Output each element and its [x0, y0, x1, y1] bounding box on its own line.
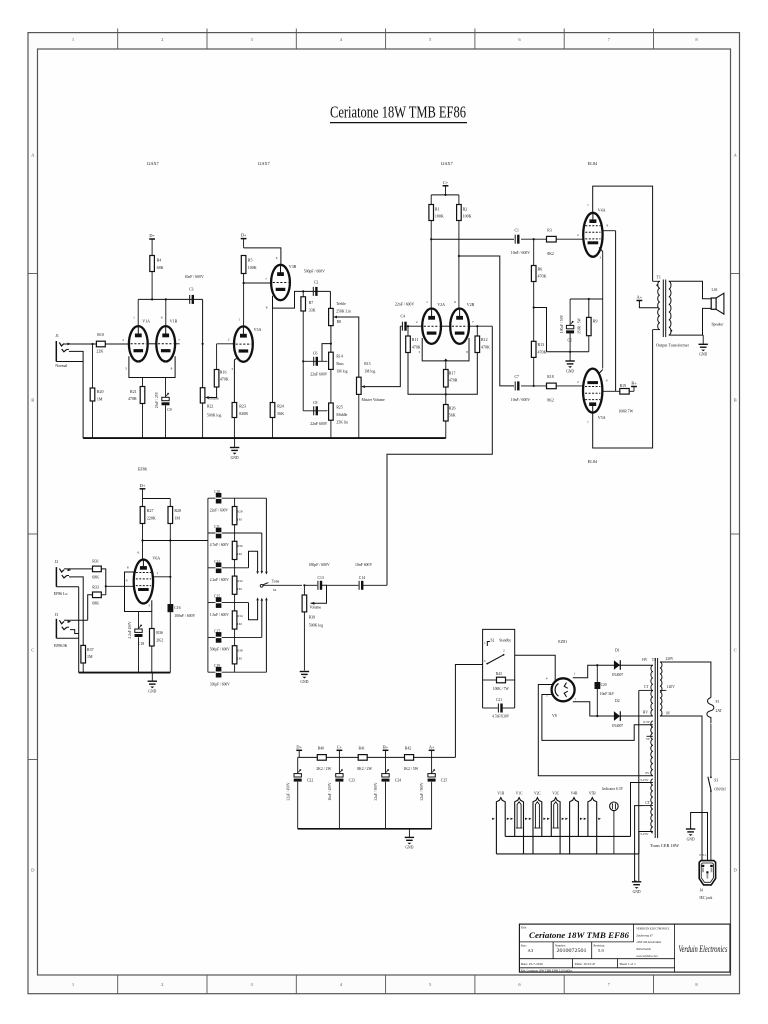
svg-text:C6: C6: [313, 351, 318, 355]
T2 heater winding: [651, 779, 653, 833]
svg-text:J1: J1: [55, 334, 59, 338]
svg-text:V1B: V1B: [497, 791, 504, 795]
wire J2 ring to R37: [69, 577, 83, 646]
capacitor C25 electrolytic: [431, 757, 433, 773]
svg-text:0V: 0V: [666, 711, 671, 715]
svg-text:C8: C8: [313, 401, 318, 405]
svg-text:C22: C22: [307, 779, 313, 783]
capacitor C5 electrolytic: [569, 299, 571, 325]
svg-text:B: B: [734, 398, 737, 403]
svg-text:A3: A3: [528, 948, 534, 953]
svg-text:470R: 470R: [128, 396, 137, 401]
svg-text:J4: J4: [700, 889, 703, 893]
svg-text:22nF 600V: 22nF 600V: [310, 372, 327, 376]
svg-text:1: 1: [238, 318, 240, 322]
resistor R17: [444, 370, 449, 388]
resistor R32: [234, 568, 236, 576]
wire IEC earth to ground: [691, 813, 708, 861]
svg-text:R1: R1: [435, 206, 440, 211]
ground GND filter caps: [408, 829, 410, 838]
svg-text:D+: D+: [149, 233, 155, 238]
wire V3B anode rail: [244, 248, 281, 265]
wire standby pin2 to rectifier: [515, 655, 556, 681]
svg-text:150R / 5W: 150R / 5W: [578, 318, 582, 334]
capacitor C22 electrolytic: [297, 757, 299, 773]
svg-text:R39: R39: [309, 616, 315, 620]
resistor R26: [445, 394, 447, 404]
svg-text:Middle: Middle: [336, 413, 347, 417]
wire 3.15V top to heater bus: [631, 783, 653, 837]
svg-text:R24: R24: [277, 404, 284, 409]
wire grid link V1A-V1B: [148, 343, 157, 345]
svg-text:C11: C11: [214, 525, 220, 529]
wire V1A anode: [137, 299, 139, 326]
svg-text:22nF 600V: 22nF 600V: [310, 422, 327, 426]
ground GND mains earth: [686, 828, 695, 830]
ground GND preamp bus: [234, 438, 236, 447]
svg-text:D1: D1: [615, 649, 620, 653]
svg-text:GND: GND: [148, 690, 156, 694]
svg-text:22K: 22K: [96, 349, 103, 354]
svg-text:C16: C16: [174, 606, 180, 610]
resistor R19: [616, 390, 620, 392]
wire V4A screen pin 9: [602, 230, 615, 232]
resistor R42: [405, 755, 414, 761]
svg-text:IEC jack: IEC jack: [699, 896, 712, 900]
resistor R43 snubber: [483, 679, 497, 681]
phase dot T1 secondary: [670, 330, 672, 332]
svg-text:100K: 100K: [435, 214, 444, 219]
svg-text:C12: C12: [214, 560, 220, 564]
svg-text:EF86 Hi: EF86 Hi: [54, 644, 67, 648]
svg-text:R43: R43: [496, 672, 502, 676]
svg-text:R29: R29: [237, 509, 243, 513]
capacitor C19: [216, 667, 222, 678]
svg-text:VERDUIN ELECTRONICS: VERDUIN ELECTRONICS: [636, 927, 670, 931]
wire HV CT to ground: [638, 690, 640, 881]
svg-text:C9: C9: [167, 408, 172, 412]
svg-text:Date: 25-7-2010: Date: 25-7-2010: [521, 962, 544, 966]
svg-text:GND: GND: [231, 456, 239, 460]
svg-text:C20: C20: [601, 683, 607, 687]
rotary switch S4 rotor: [260, 584, 263, 587]
svg-text:EF86: EF86: [138, 467, 147, 472]
resistor R36: [151, 612, 153, 629]
wire heater bus lower: [496, 853, 639, 855]
svg-text:V5A: V5A: [598, 415, 606, 420]
svg-text:1M: 1M: [237, 657, 242, 661]
svg-text:22nF / 600V: 22nF / 600V: [395, 303, 414, 307]
capacitor C12: [216, 563, 222, 574]
resistor R3: [547, 236, 557, 242]
svg-text:56K: 56K: [449, 413, 456, 418]
svg-text:100K: 100K: [463, 214, 472, 219]
column tick marks: [117, 29, 119, 50]
svg-text:4.7nF / 600V: 4.7nF / 600V: [210, 543, 229, 547]
svg-text:A+: A+: [429, 744, 435, 749]
svg-text:V3C: V3C: [552, 791, 559, 795]
resistor R10: [96, 341, 105, 347]
svg-text:R15: R15: [364, 362, 370, 366]
svg-text:B+: B+: [383, 744, 389, 749]
svg-text:7: 7: [575, 698, 577, 702]
capacitor C23 electrolytic: [338, 757, 340, 773]
svg-text:C: C: [734, 648, 737, 653]
svg-text:V2A: V2A: [437, 302, 445, 307]
svg-text:R34: R34: [237, 614, 243, 618]
svg-text:IN4007: IN4007: [612, 724, 623, 728]
svg-text:Normal: Normal: [55, 364, 67, 368]
svg-text:S3: S3: [714, 778, 718, 782]
wire heater bus upper: [505, 835, 630, 837]
svg-text:Ceriatone 18W TMB EF86: Ceriatone 18W TMB EF86: [330, 103, 466, 122]
svg-text:1: 1: [157, 571, 159, 575]
resistor R24: [272, 308, 274, 402]
wire J3 tip to R33: [64, 619, 88, 621]
label 230V: [660, 661, 673, 663]
svg-text:V4A: V4A: [598, 208, 606, 213]
wire tone bank left bus: [207, 498, 209, 672]
svg-text:R6: R6: [538, 266, 543, 271]
volume pot R22: [200, 388, 205, 403]
svg-text:Volume: Volume: [309, 606, 321, 610]
svg-text:470K: 470K: [481, 344, 490, 349]
svg-text:32uF / 500V: 32uF / 500V: [420, 782, 424, 801]
svg-text:1M: 1M: [174, 516, 180, 521]
wire V1B grid stub: [175, 343, 180, 345]
resistor R11: [407, 326, 409, 336]
svg-text:5V: 5V: [646, 737, 651, 741]
svg-text:C19: C19: [214, 664, 220, 668]
pentode V6A EF86: [134, 560, 153, 604]
svg-text:2K2 / 2W: 2K2 / 2W: [316, 767, 331, 771]
wire tone row 4: [208, 602, 249, 604]
svg-text:470K: 470K: [538, 274, 547, 279]
svg-text:10nF / 600V: 10nF / 600V: [511, 251, 530, 255]
svg-text:Zuiderweg 67: Zuiderweg 67: [636, 933, 653, 937]
wire V8 heater pin 5 to 6.3V: [542, 695, 653, 741]
svg-text:V3B: V3B: [289, 264, 297, 269]
svg-text:File: Ceriatone 18W TMB EF86: File: Ceriatone 18W TMB EF86 5.0.SchDoc: [521, 968, 573, 972]
svg-text:6: 6: [276, 256, 278, 260]
resistor R20: [92, 344, 94, 388]
svg-text:180pF / 600V: 180pF / 600V: [309, 563, 330, 567]
rectifier tube V8: [552, 678, 575, 701]
svg-text:0V: 0V: [645, 771, 650, 775]
resistor R9: [588, 299, 590, 317]
wire rotor to volume: [263, 584, 302, 586]
svg-text:500K log: 500K log: [309, 623, 323, 627]
svg-text:25uF / 25V: 25uF / 25V: [155, 391, 159, 408]
capacitor C16: [168, 604, 174, 612]
wire V2A anode to C1: [430, 221, 432, 309]
svg-text:R36: R36: [156, 630, 163, 635]
svg-text:1M: 1M: [87, 654, 93, 659]
wire bass wiper jog: [322, 344, 331, 362]
svg-text:C15: C15: [214, 595, 220, 599]
wire R4 to anode rail: [151, 272, 153, 300]
svg-text:Sheet 1 of 1: Sheet 1 of 1: [620, 962, 637, 966]
wire V2 cathode box: [422, 338, 469, 361]
resistor R16: [214, 370, 219, 388]
rotary switch S4 contact 1: [265, 498, 267, 571]
capacitor C9 electrolytic: [162, 397, 169, 400]
svg-text:56K: 56K: [277, 411, 284, 416]
wire treble wiper to master volume: [333, 316, 337, 319]
svg-text:8: 8: [171, 366, 173, 370]
wire J1 ring to ground: [69, 351, 83, 438]
svg-text:100R 7W: 100R 7W: [619, 409, 634, 413]
svg-text:Output Transformer: Output Transformer: [656, 344, 690, 348]
resistor R18: [547, 383, 557, 389]
svg-text:100uF / 50V: 100uF / 50V: [560, 315, 564, 334]
svg-text:12AX7: 12AX7: [146, 161, 158, 166]
wire standby to A+ rail: [455, 665, 482, 758]
svg-text:1M: 1M: [237, 622, 242, 626]
svg-text:C17: C17: [214, 629, 220, 633]
wire heater CT to ground: [635, 806, 643, 881]
svg-text:470K: 470K: [538, 350, 547, 355]
svg-text:6: 6: [454, 300, 456, 304]
wire C8 to middle wiper: [303, 410, 327, 412]
svg-text:IN4007: IN4007: [612, 673, 623, 677]
label 120V: [660, 689, 666, 691]
svg-text:HV: HV: [643, 710, 649, 714]
svg-text:1M: 1M: [237, 552, 242, 556]
rotary switch S4 contact 3: [249, 551, 258, 571]
resistor R37: [81, 645, 86, 663]
wire J2 tip to R31: [64, 568, 93, 570]
svg-text:6: 6: [161, 316, 163, 320]
svg-text:Verduin Electronics: Verduin Electronics: [679, 944, 728, 954]
svg-text:HV: HV: [642, 658, 648, 662]
svg-text:C10: C10: [214, 490, 220, 494]
transformer T1 secondary: [669, 281, 671, 335]
svg-text:32uF / 500V: 32uF / 500V: [374, 782, 378, 801]
wire EF86 channel to V2B grid: [387, 326, 492, 585]
svg-text:68K: 68K: [92, 575, 99, 580]
svg-text:R4: R4: [157, 258, 162, 263]
ground GND EL84 cathode: [569, 352, 571, 361]
resistor R1: [429, 205, 434, 221]
svg-text:8K2 / 2W: 8K2 / 2W: [357, 767, 372, 771]
svg-text:C13: C13: [318, 576, 324, 580]
svg-text:3.15V: 3.15V: [640, 832, 649, 836]
wire EF86 anode rail: [143, 498, 171, 500]
svg-text:Bass: Bass: [336, 362, 344, 366]
svg-text:GND: GND: [699, 353, 707, 357]
resistor R4: [150, 256, 155, 272]
svg-text:Title: Title: [521, 925, 527, 929]
svg-text:R32: R32: [237, 579, 243, 583]
svg-text:4: 4: [546, 677, 548, 681]
svg-text:D+: D+: [140, 483, 146, 488]
wire T1 secondary bottom: [669, 334, 703, 336]
capacitor C15: [216, 597, 222, 608]
fuse F1: [707, 698, 714, 724]
svg-text:3: 3: [125, 366, 127, 370]
svg-text:R21: R21: [130, 389, 137, 394]
svg-text:120V: 120V: [667, 685, 675, 689]
wire V2B anode to C7: [458, 221, 460, 309]
svg-text:D+: D+: [241, 233, 247, 238]
svg-text:R13: R13: [538, 342, 545, 347]
svg-text:V1A: V1A: [142, 319, 150, 324]
resistor R28: [168, 507, 173, 524]
ground GND EF86: [151, 673, 153, 682]
svg-text:D2: D2: [615, 699, 620, 703]
svg-text:R16: R16: [220, 369, 227, 374]
svg-text:2K2: 2K2: [156, 638, 163, 643]
wire grid link V2A-V2B: [441, 325, 451, 327]
svg-text:16uF / 450V: 16uF / 450V: [328, 782, 332, 801]
wire V1 cathode box: [129, 356, 175, 377]
svg-text:V8: V8: [552, 714, 557, 718]
svg-text:4.7nF/630V: 4.7nF/630V: [492, 715, 510, 719]
svg-text:Volume: Volume: [207, 396, 219, 400]
svg-text:470R: 470R: [449, 378, 458, 383]
svg-text:Revision:: Revision:: [594, 943, 606, 947]
wire V8 plate 7 to D2 rail: [573, 702, 653, 716]
svg-text:100K: 100K: [248, 265, 257, 270]
resistor R30: [234, 533, 236, 541]
svg-text:GND: GND: [566, 369, 574, 373]
svg-text:R7: R7: [309, 300, 314, 305]
svg-text:C+: C+: [443, 180, 449, 185]
wire treble bottom to bass: [330, 326, 332, 353]
middle pot R25: [329, 403, 334, 420]
svg-text:2: 2: [503, 649, 505, 653]
triode V1A: [129, 326, 148, 361]
svg-text:2: 2: [577, 380, 579, 384]
svg-text:8K2: 8K2: [547, 252, 554, 256]
svg-text:6: 6: [137, 551, 139, 555]
svg-text:V3A: V3A: [254, 327, 262, 332]
svg-text:2010072501: 2010072501: [557, 948, 587, 954]
svg-text:3: 3: [484, 659, 486, 663]
wire V5A cathode: [599, 370, 603, 374]
wire V6A grid: [106, 585, 134, 587]
svg-text:C+: C+: [337, 744, 343, 749]
svg-text:CT: CT: [644, 685, 649, 689]
svg-text:R26: R26: [449, 405, 456, 410]
svg-text:2.2uF 450V: 2.2uF 450V: [128, 621, 132, 639]
svg-text:V5B: V5B: [589, 791, 596, 795]
wire V8 heater pin 4 to 0V: [538, 685, 653, 776]
svg-text:1M log: 1M log: [364, 370, 375, 374]
svg-text:T1: T1: [656, 275, 660, 280]
svg-text:1M log: 1M log: [336, 370, 347, 374]
capacitor C10: [216, 493, 222, 504]
wire V3A grid: [217, 343, 234, 345]
svg-text:250K Lin: 250K Lin: [336, 310, 351, 314]
wire tone row 3: [208, 567, 249, 569]
svg-text:12AX7: 12AX7: [440, 161, 452, 166]
svg-text:32uF / 450V: 32uF / 450V: [286, 782, 290, 801]
svg-text:A+: A+: [637, 295, 643, 300]
T2 HV secondary winding: [651, 665, 653, 716]
capacitor C24 electrolytic: [385, 757, 387, 773]
svg-text:V2C: V2C: [534, 791, 541, 795]
wire V2B grid stub: [469, 325, 492, 327]
svg-text:R19: R19: [620, 384, 626, 388]
triode V1B: [156, 326, 175, 361]
resistor R6: [533, 239, 535, 265]
svg-text:8: 8: [127, 565, 129, 569]
svg-text:R37: R37: [87, 647, 94, 652]
svg-text:R22: R22: [207, 404, 213, 408]
wire bass to middle: [330, 369, 332, 403]
capacitor C11: [216, 528, 222, 539]
svg-text:C4: C4: [401, 314, 406, 318]
switch S2 standby box: [483, 629, 515, 708]
svg-text:100K / 7W: 100K / 7W: [493, 687, 510, 691]
svg-text:Time: 10:15:47: Time: 10:15:47: [575, 962, 596, 966]
resistor R33: [93, 592, 102, 598]
bass pot R14: [329, 352, 334, 369]
svg-text:V4B: V4B: [571, 791, 578, 795]
svg-text:1.5nF / 600V: 1.5nF / 600V: [210, 613, 229, 617]
svg-text:C2: C2: [314, 280, 319, 284]
svg-text:R42: R42: [405, 746, 411, 750]
svg-text:CT: CT: [645, 801, 650, 805]
wire ground bus preamp: [83, 437, 446, 439]
wire R31 to grid node: [101, 569, 106, 595]
svg-text:10nF / 600V: 10nF / 600V: [185, 275, 204, 279]
wire filter cap ground rail: [298, 828, 432, 830]
wire R3 to V4A grid: [556, 238, 583, 240]
ground GND transformer CT: [635, 880, 637, 882]
svg-text:C: C: [31, 648, 34, 653]
svg-text:9: 9: [607, 224, 609, 228]
svg-text:www.verduin.com: www.verduin.com: [636, 954, 658, 958]
resistor R13: [531, 341, 536, 357]
svg-text:330pF / 600V: 330pF / 600V: [210, 682, 230, 686]
ground GND EF86 volume: [300, 671, 309, 673]
wire V3B grid: [244, 282, 272, 284]
wire V4A cathode: [599, 248, 603, 252]
wire C3 to volume: [202, 299, 204, 387]
svg-text:1M: 1M: [97, 396, 103, 401]
label CT heater: [643, 805, 653, 807]
svg-text:Number:: Number:: [555, 943, 566, 947]
wire B+ rail: [298, 756, 456, 758]
master volume pot R15: [357, 377, 362, 394]
svg-text:C25: C25: [441, 779, 447, 783]
wire V6A pin 1: [153, 576, 170, 578]
svg-text:8K2: 8K2: [547, 399, 554, 403]
svg-text:C7: C7: [515, 375, 520, 379]
svg-text:D+: D+: [296, 744, 302, 749]
svg-text:Netherlands: Netherlands: [635, 947, 651, 951]
svg-text:2: 2: [577, 233, 579, 237]
svg-text:10nF 3kV: 10nF 3kV: [600, 692, 615, 696]
svg-text:25K lin: 25K lin: [336, 420, 348, 424]
wire J2 sleeve ground: [56, 586, 78, 588]
wire tone row 5: [208, 636, 262, 638]
svg-text:V2B: V2B: [467, 302, 475, 307]
wire master wiper to C4: [361, 385, 365, 388]
svg-text:J2: J2: [55, 560, 59, 564]
capacitor C17: [216, 632, 222, 643]
svg-text:1: 1: [574, 672, 576, 676]
svg-text:C1: C1: [515, 229, 520, 233]
wire J3 ring: [70, 630, 79, 634]
resistor R29: [234, 498, 236, 506]
rotary switch S4 contact 4: [249, 600, 258, 619]
svg-text:12AX7: 12AX7: [257, 161, 269, 166]
T2 rectifier heater winding: [651, 721, 653, 776]
